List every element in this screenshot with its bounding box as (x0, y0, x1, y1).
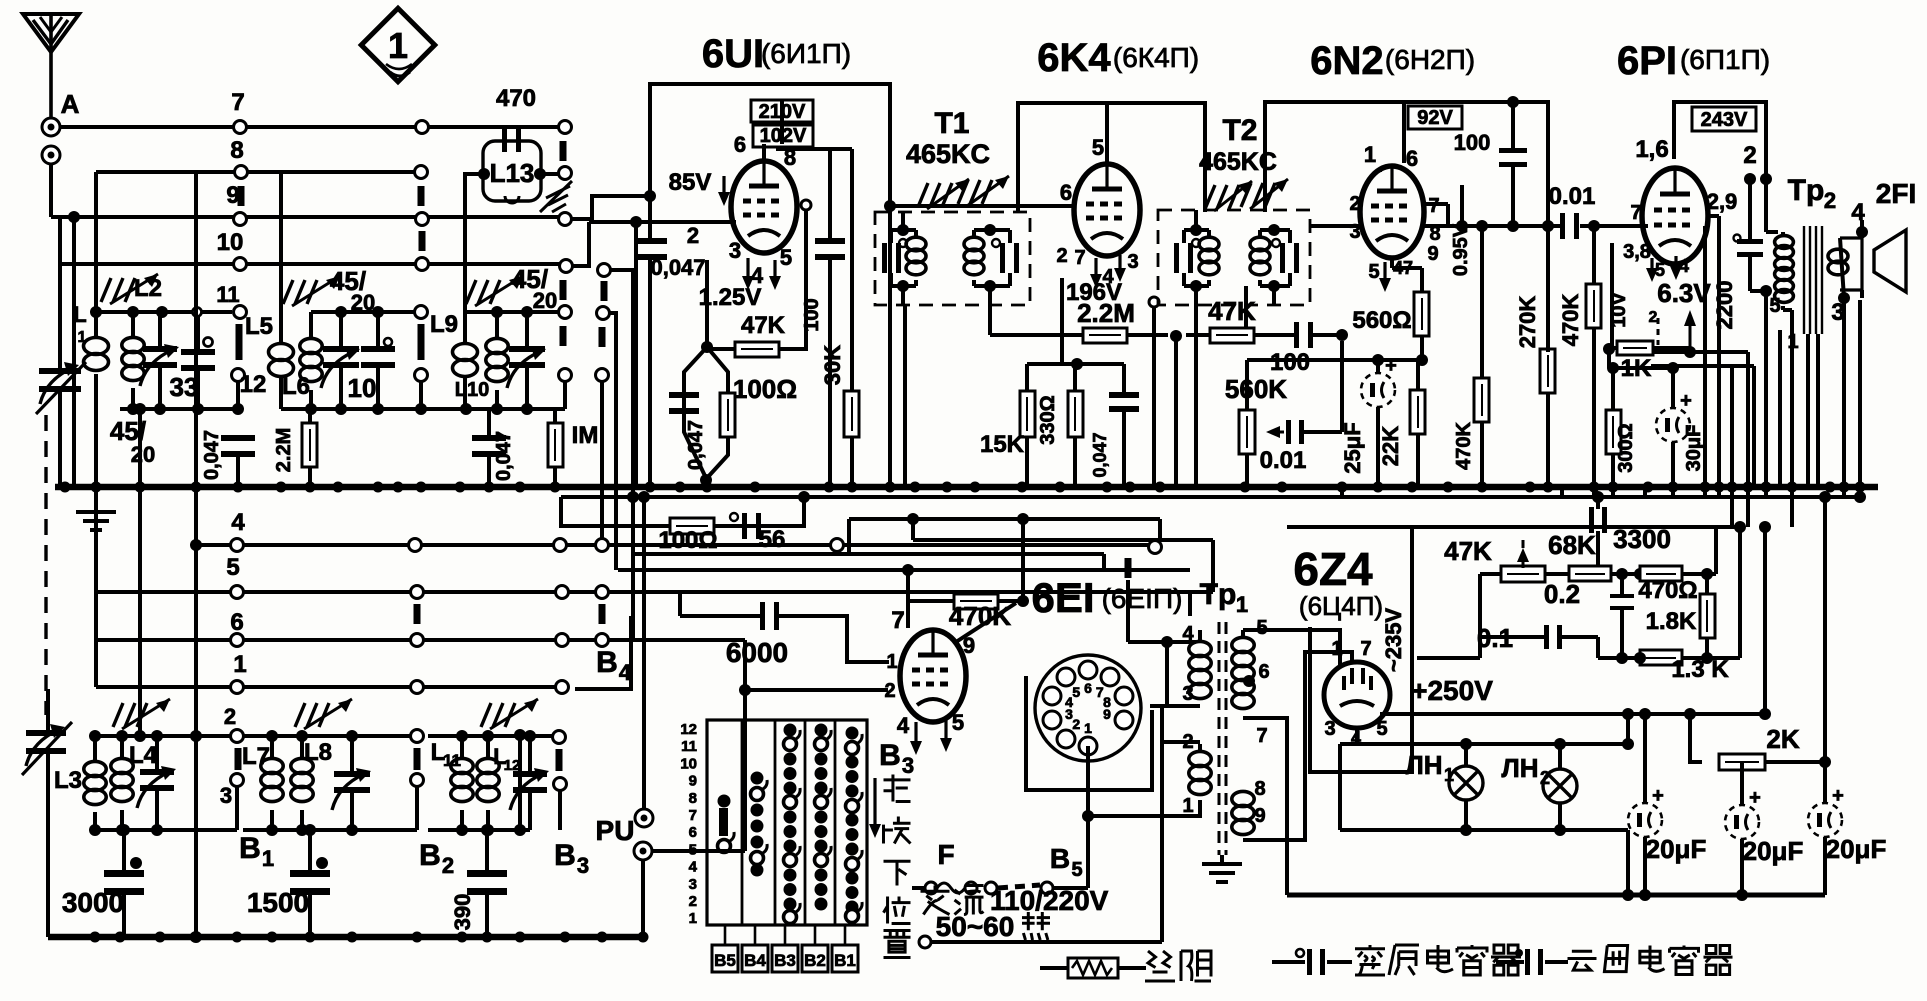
svg-text:7: 7 (891, 607, 904, 634)
svg-text:15K: 15K (980, 431, 1025, 458)
resistor 2K (1719, 724, 1831, 770)
coil L11 (431, 736, 474, 830)
bus junction (1543, 482, 1554, 493)
legend wirewound resistor (1040, 951, 1211, 981)
wire 6N2 top box (1404, 102, 1548, 352)
svg-text:1: 1 (1182, 795, 1193, 817)
bus junction (824, 482, 835, 493)
pin label 6E1-7 (891, 607, 904, 634)
box 243V (1692, 107, 1756, 131)
resistor 330ohm (1037, 364, 1083, 487)
resistor 470K 6E1 (908, 594, 1029, 631)
wire 6N2 cath (1392, 258, 1422, 268)
contact 4d (831, 539, 844, 552)
speaker 2F1 (1828, 178, 1916, 326)
svg-text:0.01: 0.01 (1549, 183, 1596, 210)
coil L2 (122, 275, 162, 408)
wire 6K4 cath (1027, 278, 1124, 370)
svg-text:56: 56 (759, 526, 786, 553)
bus junction (1055, 482, 1066, 493)
svg-text:T1: T1 (934, 107, 969, 140)
label B5 ac (1050, 843, 1083, 881)
svg-text:2.2M: 2.2M (273, 428, 295, 472)
contact 8a (235, 166, 248, 207)
wire bus y527r (1287, 525, 1740, 529)
svg-text:20μF: 20μF (1646, 834, 1707, 864)
wire net right (1417, 527, 1716, 658)
svg-text:10: 10 (217, 229, 244, 256)
svg-text:1: 1 (689, 910, 697, 927)
T2 box corner circle (1149, 297, 1159, 487)
svg-text:B2: B2 (804, 951, 826, 970)
trimmer C L2 (140, 312, 179, 408)
bottom bus junction (515, 932, 526, 943)
label line6 (230, 609, 243, 636)
svg-text:50~60: 50~60 (936, 911, 1015, 942)
svg-text:22K: 22K (1378, 426, 1403, 466)
contact 5d (596, 586, 609, 625)
svg-text:L10: L10 (455, 379, 489, 401)
svg-text:92V: 92V (1417, 107, 1453, 129)
wire tank row23 bottom (281, 403, 565, 415)
coil L8 (291, 736, 332, 830)
pin labels 6K4 bottom (1056, 245, 1138, 288)
svg-text:6: 6 (689, 824, 697, 841)
svg-text:2.2M: 2.2M (1077, 298, 1135, 328)
resistor 1.3K (1598, 521, 1746, 683)
contact 10c (560, 260, 573, 301)
contact 10a (234, 258, 247, 271)
wire T2 vert (1196, 286, 1252, 487)
wire L13 right (540, 172, 558, 176)
svg-text:L3: L3 (54, 767, 82, 794)
resistor 47K 6U1 (707, 200, 811, 357)
trimmer ground mark (540, 181, 572, 212)
hatch L12 (481, 699, 538, 729)
label 1.25V (699, 284, 762, 311)
svg-text:3300: 3300 (1613, 524, 1671, 554)
wire tank4 top (89, 704, 236, 742)
svg-text:B: B (419, 839, 441, 872)
contact 4b (409, 539, 422, 552)
resistor 22K (1378, 360, 1425, 487)
svg-text:3,8: 3,8 (1623, 241, 1651, 263)
label 6E1 (1031, 574, 1182, 621)
svg-text:1: 1 (388, 25, 408, 66)
wire tank row1 bottom (120, 403, 244, 415)
svg-text:L6: L6 (282, 373, 310, 400)
svg-text:F: F (937, 839, 954, 870)
svg-text:2: 2 (442, 853, 454, 878)
wire 6N2 plate (1424, 185, 1468, 232)
contact 9c (559, 213, 572, 226)
label 6P1 (1617, 39, 1770, 83)
contact 2b (411, 730, 424, 771)
wire line 10 (60, 217, 560, 264)
wire 6Z4 plate2 (1252, 652, 1352, 840)
bus junction (1589, 482, 1600, 493)
wire tank5 top (243, 730, 410, 742)
hatch L8 (295, 699, 352, 729)
terminal AC2 (919, 936, 1162, 948)
tube 6U1 (731, 161, 797, 253)
wire 6E1 pin9 diag (956, 603, 1016, 642)
band switch contacts (718, 724, 863, 924)
capacitor 3000 (62, 830, 144, 937)
svg-text:470K: 470K (1558, 294, 1583, 347)
label 6K4 (1037, 36, 1199, 80)
hatch L4 (113, 699, 170, 729)
resistor 470K 6N2a (1453, 220, 1489, 487)
label 6Z4 (1293, 543, 1383, 621)
electrolytic 20uF b (1725, 762, 1803, 901)
wire line 6 (96, 592, 745, 640)
svg-text:B: B (554, 839, 576, 872)
svg-text:1: 1 (1364, 142, 1376, 167)
resistor 470K 6P1g (1558, 226, 1601, 487)
svg-text:0.95V: 0.95V (1450, 223, 1472, 276)
label B1 (239, 832, 274, 871)
svg-text:6: 6 (734, 132, 746, 157)
resistor 1.8K (1646, 568, 1715, 658)
bus junction (1714, 482, 1725, 493)
contact 1c (556, 681, 569, 694)
fuse F (912, 839, 1088, 894)
svg-text:1: 1 (1787, 331, 1798, 353)
svg-text:6K4: 6K4 (1037, 36, 1111, 80)
label AC voltage (921, 885, 1109, 916)
svg-text:2K: 2K (1766, 724, 1799, 754)
socket frame (1026, 676, 1152, 790)
svg-text:9: 9 (689, 773, 697, 790)
tube 6N2 (1360, 166, 1424, 258)
svg-text:+: + (1652, 785, 1664, 807)
capacitor 2200 (1712, 173, 1772, 329)
pin label 6P1-16 (1635, 136, 1668, 163)
svg-text:0.2: 0.2 (1544, 579, 1580, 609)
svg-text:2: 2 (1072, 716, 1080, 732)
contact 1a (231, 681, 244, 694)
capacitor 0.047 6K4 (1090, 364, 1139, 487)
svg-text:2: 2 (1743, 142, 1756, 169)
svg-text:270K: 270K (1515, 296, 1540, 349)
svg-text:68K: 68K (1548, 530, 1596, 560)
svg-text:5: 5 (1072, 684, 1080, 700)
svg-text:Tp: Tp (1200, 578, 1237, 611)
box 92V (1408, 106, 1462, 129)
bus junction (750, 482, 761, 493)
svg-text:3: 3 (577, 853, 589, 878)
bus junction (276, 482, 287, 493)
bus junction (1787, 482, 1798, 493)
trimmer CL4 (137, 736, 176, 830)
IF transformer T2 box (1158, 114, 1310, 305)
wire 6N2 out (1424, 204, 1530, 226)
svg-text:7: 7 (1256, 725, 1267, 747)
resistor 2.2M osc (273, 409, 317, 487)
bottom bus junction (267, 932, 278, 943)
pin label 6K4-6 (1005, 180, 1073, 206)
bus junction (393, 482, 404, 493)
trimmer CL8 (332, 736, 371, 830)
svg-text:(6К4П): (6К4П) (1113, 42, 1199, 73)
svg-text:3: 3 (689, 876, 697, 893)
svg-text:7: 7 (1074, 247, 1085, 269)
svg-text:560Ω: 560Ω (1352, 307, 1411, 334)
svg-text:3: 3 (729, 238, 741, 263)
contact 2c (553, 731, 566, 772)
pin labels 6E1 (884, 633, 975, 755)
coil L4 (111, 736, 158, 830)
svg-text:IM: IM (572, 422, 599, 449)
svg-text:5: 5 (952, 710, 964, 735)
svg-text:2FI: 2FI (1876, 178, 1916, 209)
coil L7 (242, 736, 283, 830)
label 85V (669, 169, 730, 206)
svg-text:6: 6 (1258, 661, 1269, 683)
resistor 47K pot (1444, 536, 1545, 582)
contact 4e (1128, 541, 1162, 579)
svg-text:6PI: 6PI (1617, 39, 1677, 83)
bus junction (191, 482, 202, 493)
contact 7c (559, 121, 572, 134)
capacitor 0.01 avc (1260, 341, 1342, 474)
resistor 100ohm cath (700, 347, 797, 486)
contact 11b (415, 306, 428, 361)
svg-text:7: 7 (1630, 202, 1641, 224)
wire 6P1 grid (1642, 224, 1648, 228)
svg-text:470Ω: 470Ω (1638, 577, 1697, 604)
svg-text:6000: 6000 (726, 637, 788, 668)
Tp1 primary lower (1162, 731, 1211, 817)
svg-text:2: 2 (224, 704, 236, 729)
pin label 6N2-6 (1406, 146, 1418, 171)
contact 10d B4 (598, 264, 634, 642)
tube 6U1 plate stub (764, 101, 782, 161)
pin labels 6N2 (1349, 193, 1440, 292)
label 6N2 (1310, 39, 1475, 83)
svg-text:47K: 47K (741, 312, 786, 339)
svg-text:3: 3 (902, 753, 914, 778)
svg-text:0,047: 0,047 (1090, 432, 1110, 477)
resistor 47K T2 (1186, 296, 1294, 343)
svg-text:2: 2 (1349, 193, 1360, 215)
wire 6U1 grid (589, 216, 736, 487)
tube 6Z4 (1324, 662, 1390, 728)
contact 2a (231, 730, 244, 771)
bus junction (702, 482, 713, 493)
svg-text:ЛН: ЛН (1501, 753, 1538, 783)
svg-text:4: 4 (689, 859, 698, 876)
bus junction (373, 482, 384, 493)
wire line 4 (196, 543, 1150, 547)
resistor 1K (1603, 243, 1689, 382)
terminal PU top (635, 491, 653, 827)
svg-text:2: 2 (1056, 245, 1067, 267)
ground Tp1 (1202, 855, 1242, 882)
wire 6P1 pin29 (1708, 216, 1719, 487)
svg-text:20μF: 20μF (1826, 834, 1887, 864)
bus junction (60, 482, 71, 493)
IF transformer T1 box (875, 107, 1030, 305)
resistor 560K (1225, 360, 1422, 487)
wire 6N2 grid (1310, 224, 1360, 228)
wire 6K4 top box (1018, 103, 1205, 212)
bus junction (515, 482, 526, 493)
hatch L5L6 (283, 266, 375, 315)
svg-text:2: 2 (687, 223, 699, 248)
svg-text:1.3 K: 1.3 K (1671, 656, 1729, 683)
coil L1 (73, 302, 108, 371)
svg-text:6: 6 (230, 609, 243, 636)
svg-text:A: A (61, 89, 80, 119)
svg-text:+: + (1832, 785, 1844, 807)
bus junction (910, 482, 921, 493)
bottom bus junction (560, 932, 571, 943)
note hanzi xia (884, 861, 911, 885)
trimmer C2 (321, 312, 360, 409)
svg-text:0,047: 0,047 (201, 430, 223, 480)
bus junction (305, 482, 316, 493)
resistor 560ohm (1352, 268, 1429, 366)
capacitor 0.01 coupling (1530, 183, 1648, 239)
trimmer CL12 (510, 736, 549, 830)
contact 12a (232, 369, 267, 410)
wire bus y554 (633, 554, 1104, 570)
svg-text:2,9: 2,9 (1707, 189, 1738, 214)
wire 100ohm loop (561, 497, 804, 526)
svg-text:6: 6 (1084, 680, 1092, 696)
ground bus bottom left (48, 934, 645, 941)
ground bus main (55, 484, 1878, 491)
note hanzi zai (884, 775, 911, 802)
bus junction (484, 482, 495, 493)
contact 3c (554, 778, 567, 831)
box 210V (751, 100, 813, 123)
contact L13 (559, 141, 572, 180)
T2 primary (1174, 210, 1219, 305)
coil L3 (54, 736, 106, 830)
svg-text:L5: L5 (245, 313, 273, 340)
svg-text:3: 3 (220, 783, 232, 808)
wire tank6 bottom (428, 824, 530, 836)
svg-text:1: 1 (1236, 592, 1248, 617)
tuning gang link (44, 415, 47, 715)
contact 8b (415, 166, 428, 207)
contact 11c (559, 306, 572, 347)
wire comb right (1705, 226, 1818, 487)
bus junction (91, 482, 102, 493)
bus junction (1643, 482, 1654, 493)
svg-text:1500: 1500 (247, 887, 309, 918)
bottom bus junction (457, 932, 468, 943)
svg-text:1: 1 (233, 651, 246, 678)
svg-text:6N2: 6N2 (1310, 39, 1383, 83)
lamp LN1 (1405, 744, 1483, 830)
Tp1 secondary LV (1232, 778, 1266, 840)
resistor 100ohm b (658, 518, 717, 554)
electrolytic 20uF c (1808, 497, 1886, 895)
svg-text:7: 7 (231, 89, 244, 116)
electrolytic 20uF a (1628, 708, 1706, 901)
capacitor 33 (170, 312, 215, 408)
bus junction (885, 482, 896, 493)
pin label 6U1-8 (784, 145, 796, 170)
resistor 1M (548, 409, 598, 487)
bus junction (1102, 482, 1113, 493)
capacitor 470 top (496, 85, 536, 112)
bus junction (1839, 482, 1850, 493)
terminal A (42, 89, 80, 136)
T1 tuning arrows (918, 176, 1009, 209)
svg-text:47K: 47K (1444, 536, 1492, 566)
svg-text:~235V: ~235V (1381, 608, 1406, 673)
pin 2 heater dash (1649, 309, 1658, 345)
resistor 300ohm (1606, 368, 1637, 487)
bus junction (847, 482, 858, 493)
wire socket pin1 (1082, 746, 1196, 888)
svg-text:L13: L13 (490, 158, 535, 188)
svg-text:390: 390 (450, 894, 475, 931)
bus junction (1761, 482, 1772, 493)
wire 6Z4 plate1 (1252, 630, 1340, 665)
label B3 note (869, 739, 914, 838)
transformer Tp1 core (1219, 622, 1226, 855)
bus junction (1277, 482, 1288, 493)
ground symbol main (76, 487, 116, 530)
svg-text:11: 11 (216, 282, 239, 307)
svg-text:0.01: 0.01 (1260, 447, 1307, 474)
svg-text:9: 9 (1254, 805, 1265, 827)
capacitor 0.047 on x650 (635, 196, 706, 487)
resistor 270K (1515, 220, 1555, 487)
svg-text:9: 9 (226, 182, 239, 209)
svg-text:10: 10 (348, 373, 377, 403)
svg-text:20: 20 (533, 288, 557, 313)
svg-text:5: 5 (780, 245, 792, 270)
note hanzi zhi (884, 931, 911, 958)
svg-text:7: 7 (1360, 638, 1371, 660)
pin label 6P1-2 (1743, 142, 1756, 169)
wire tank2 top (311, 306, 415, 318)
wire line 9 (51, 164, 560, 217)
hatch L9L10 (466, 264, 557, 313)
coil L6 (282, 312, 322, 409)
label B3 (554, 839, 589, 878)
bus junction (1155, 482, 1166, 493)
svg-text:(6ЕIП): (6ЕIП) (1102, 583, 1183, 614)
svg-text:(6Н2П): (6Н2П) (1385, 44, 1475, 75)
svg-text:T2: T2 (1222, 114, 1257, 147)
wire line 1 (96, 640, 560, 687)
contact 5a (231, 586, 244, 599)
svg-text:B4: B4 (744, 951, 766, 970)
bus junction (1125, 482, 1136, 493)
svg-text:2: 2 (1824, 188, 1836, 213)
resistor 30K (820, 149, 859, 487)
capacitor 56 (730, 513, 785, 553)
wire bus y497 (561, 491, 1866, 503)
contact 7a (234, 121, 247, 134)
wire 6E1 grid1 (783, 616, 889, 662)
label 100 cap (1454, 96, 1527, 232)
terminal PU bottom (634, 842, 652, 937)
svg-text:3: 3 (1182, 683, 1193, 705)
svg-text:B: B (239, 832, 261, 865)
svg-text:5: 5 (1769, 295, 1780, 317)
wire T1 in (903, 305, 907, 487)
svg-text:47K: 47K (1208, 296, 1256, 326)
